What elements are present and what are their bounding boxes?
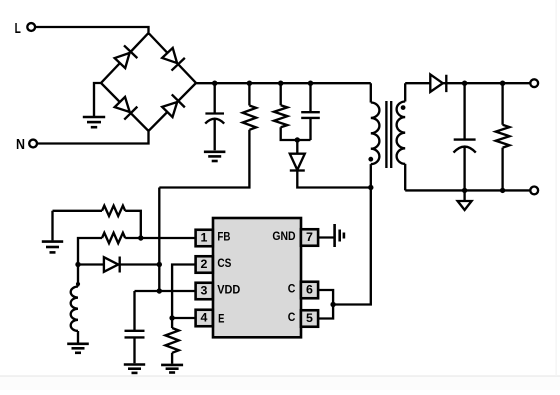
svg-text:GND: GND <box>272 229 295 243</box>
svg-text:7: 7 <box>306 230 313 244</box>
svg-text:FB: FB <box>217 230 230 244</box>
svg-text:E: E <box>218 311 224 325</box>
svg-text:C: C <box>288 310 296 324</box>
svg-text:2: 2 <box>200 257 207 271</box>
svg-text:1: 1 <box>200 231 207 245</box>
svg-text:N: N <box>16 136 25 153</box>
svg-text:CS: CS <box>217 256 231 270</box>
svg-text:5: 5 <box>306 311 313 325</box>
svg-text:VDD: VDD <box>217 283 240 297</box>
svg-text:C: C <box>288 282 296 296</box>
svg-text:4: 4 <box>200 311 207 325</box>
svg-text:3: 3 <box>200 284 207 298</box>
svg-text:L: L <box>15 20 21 37</box>
svg-text:6: 6 <box>306 283 313 297</box>
